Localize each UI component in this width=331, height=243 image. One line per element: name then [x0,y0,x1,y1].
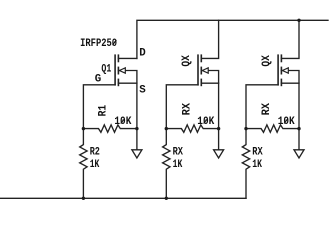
svg-text:S: S [139,85,146,97]
svg-text:1K: 1K [252,159,262,171]
svg-text:IRFP250: IRFP250 [80,38,117,50]
svg-text:R1: R1 [97,104,109,116]
svg-text:10K: 10K [197,116,214,128]
svg-text:RX: RX [252,147,263,159]
svg-text:G: G [95,73,101,85]
svg-text:RX: RX [181,103,193,116]
svg-text:10K: 10K [278,116,295,128]
svg-text:10K: 10K [114,116,131,128]
svg-text:R2: R2 [90,147,100,159]
svg-text:RX: RX [173,147,184,159]
svg-text:1K: 1K [173,159,183,171]
svg-text:D: D [139,48,146,60]
svg-text:RX: RX [261,103,273,116]
svg-text:1K: 1K [90,159,100,171]
svg-text:QX: QX [181,55,193,67]
svg-text:QX: QX [261,55,273,67]
svg-text:Q1: Q1 [101,64,111,76]
